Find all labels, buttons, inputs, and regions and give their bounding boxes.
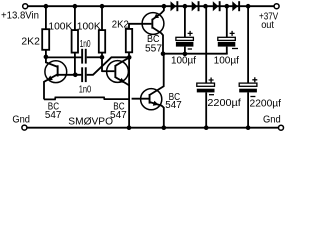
resistor R4 2K2 bbox=[126, 29, 132, 52]
capacitor C4 100uf lead top bbox=[226, 6, 228, 37]
capacitor C2 1n0 bottom bbox=[81, 67, 83, 82]
resistor R1 2K2 bbox=[45, 6, 47, 29]
node Q2 collector bbox=[127, 55, 132, 60]
capacitor C3 100uf plates bbox=[176, 37, 194, 40]
capacitor C5 lead bottom bbox=[205, 92, 207, 127]
transistor Q4 collector lead bbox=[150, 54, 164, 95]
capacitor C3 100uf lead top bbox=[184, 6, 186, 37]
plus sign C3 bbox=[188, 31, 193, 36]
svg-text:2K2: 2K2 bbox=[21, 36, 40, 47]
terminal Gnd right bbox=[279, 125, 284, 130]
wire R4 top to Q3 base bbox=[129, 24, 151, 29]
terminal Gnd left bbox=[22, 125, 27, 130]
transistor Q3 emitter lead bbox=[152, 6, 164, 19]
svg-text:+13.8Vin: +13.8Vin bbox=[1, 10, 39, 21]
minus sign C3 bbox=[188, 48, 192, 50]
svg-text:1n0: 1n0 bbox=[79, 85, 92, 96]
transistor Q4 emitter arrow bbox=[153, 101, 159, 106]
capacitor C6 lead bottom bbox=[247, 92, 249, 127]
wire driver output node bbox=[163, 53, 228, 55]
diode D3 bbox=[213, 1, 219, 11]
wire node Q1 collector to cap C1 bbox=[46, 56, 82, 58]
transistor Q1 base bar bbox=[57, 65, 59, 76]
transistor Q3 BC557 circle bbox=[142, 13, 164, 35]
node ground C6 bbox=[246, 125, 251, 130]
svg-text:547: 547 bbox=[45, 110, 62, 121]
node E D4/out/C6 bbox=[246, 4, 251, 9]
svg-text:1n0: 1n0 bbox=[80, 39, 91, 50]
resistor R2 100K bbox=[74, 6, 76, 30]
diode D2 bbox=[192, 1, 198, 11]
wire emitters to ground bbox=[44, 97, 129, 99]
transistor Q1 BC547 circle bbox=[45, 61, 67, 83]
wire R3 to Q2 base bbox=[102, 70, 114, 72]
transistor Q3 emitter arrow (PNP) bbox=[154, 14, 159, 19]
diode D1 bbox=[171, 1, 177, 11]
capacitor C3 lead bottom bbox=[184, 47, 186, 54]
svg-text:100µf: 100µf bbox=[214, 55, 240, 66]
svg-text:547: 547 bbox=[165, 100, 182, 111]
node ground Q4 emitter bbox=[162, 125, 167, 130]
node Q2 base bbox=[100, 55, 105, 60]
node B D1/D2/C3 bbox=[183, 4, 188, 9]
capacitor C1 1n0 top bbox=[81, 49, 83, 64]
transistor Q1 emitter lead bbox=[44, 74, 58, 99]
wire ground rail bbox=[27, 127, 278, 129]
transistor Q2 base bar bbox=[114, 65, 116, 78]
wire C2 right diagonal to Q2 collector node bbox=[87, 57, 130, 75]
node Q3 collector bbox=[161, 51, 166, 56]
plus sign C6 bbox=[252, 77, 257, 82]
svg-text:100K: 100K bbox=[77, 21, 101, 32]
transistor Q2 emitter lead bbox=[115, 77, 129, 85]
node C D2/D3/C5 bbox=[203, 4, 208, 9]
capacitor C5 2200uf plates bbox=[197, 83, 215, 86]
svg-text:557: 557 bbox=[145, 43, 162, 54]
svg-text:2200µf: 2200µf bbox=[250, 98, 282, 109]
transistor Q2 emitter arrow bbox=[119, 78, 125, 83]
node A rail/D1 bbox=[162, 4, 167, 9]
transistor Q2 BC547 circle bbox=[107, 61, 129, 83]
svg-text:2K2: 2K2 bbox=[112, 19, 129, 30]
svg-text:Gnd: Gnd bbox=[12, 115, 30, 126]
wire Q1 base bbox=[58, 74, 82, 76]
capacitor C5 2200uf lead top bbox=[205, 6, 207, 83]
transistor Q1 collector lead bbox=[46, 57, 58, 67]
node ground C5 bbox=[204, 125, 209, 130]
wire C1 right to Q2 base node bbox=[87, 56, 102, 58]
svg-text:100µf: 100µf bbox=[171, 56, 196, 67]
transistor Q2 collector lead bbox=[115, 58, 129, 66]
wire Q2 collector node down bbox=[128, 57, 130, 127]
plus sign C4 bbox=[230, 31, 235, 36]
terminal +13.8Vin bbox=[23, 4, 28, 9]
capacitor C4 lead bottom bbox=[226, 47, 228, 54]
svg-text:SMØVPO: SMØVPO bbox=[68, 117, 113, 128]
transistor Q3 base bar bbox=[151, 19, 153, 29]
transistor Q3 collector lead bbox=[152, 27, 163, 53]
wire to Q4 base bbox=[132, 98, 150, 100]
capacitor C6 2200uf plates bbox=[239, 83, 257, 86]
wire top rail bbox=[28, 5, 274, 7]
svg-text:100K: 100K bbox=[48, 21, 72, 32]
capacitor C6 2200uf lead top bbox=[247, 6, 249, 83]
minus sign C5 bbox=[209, 94, 214, 96]
node rail R1 bbox=[44, 4, 49, 9]
node ground Q2 emitter bbox=[127, 125, 132, 130]
svg-text:Gnd: Gnd bbox=[263, 114, 281, 125]
minus sign C6 bbox=[250, 96, 255, 98]
terminal +37V out bbox=[274, 4, 279, 9]
node rail R2 bbox=[73, 4, 78, 9]
plus sign C5 bbox=[209, 78, 214, 83]
node Q1 base bbox=[73, 73, 78, 78]
transistor Q4 emitter lead bbox=[150, 102, 164, 128]
minus sign C4 bbox=[232, 48, 238, 50]
svg-text:2200µf: 2200µf bbox=[207, 98, 241, 109]
capacitor C4 100uf plates bbox=[218, 37, 236, 40]
node D D3/D4/C4 bbox=[225, 4, 230, 9]
node rail R3 bbox=[100, 4, 105, 9]
transistor Q4 BC547 circle bbox=[141, 89, 162, 110]
transistor Q1 emitter arrow bbox=[47, 76, 53, 81]
diode D4 bbox=[232, 1, 238, 11]
transistor Q4 base bar bbox=[149, 94, 151, 104]
node Q1 collector bbox=[44, 55, 49, 60]
svg-text:out: out bbox=[261, 20, 274, 31]
resistor R3 100K bbox=[101, 6, 103, 30]
node C3 bottom bbox=[183, 52, 188, 57]
